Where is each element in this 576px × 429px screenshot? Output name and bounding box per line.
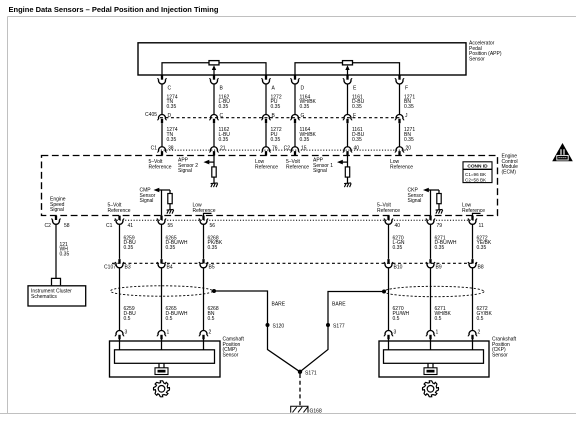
svg-text:C1: C1 — [106, 223, 113, 229]
CMP inner element — [115, 350, 215, 364]
APP pin E terminal — [343, 75, 352, 84]
svg-text:LowReference: LowReference — [462, 203, 485, 214]
potentiometer 2 wiper — [347, 70, 349, 75]
svg-text:LowReference: LowReference — [193, 203, 216, 214]
svg-text:15: 15 — [301, 146, 307, 152]
wire col5 lower — [347, 123, 349, 147]
svg-text:5–VoltReference: 5–VoltReference — [149, 159, 172, 170]
svg-text:3: 3 — [125, 330, 128, 336]
svg-text:C107: C107 — [104, 265, 116, 271]
CKP pullup riser — [438, 190, 440, 194]
svg-text:20: 20 — [406, 146, 412, 152]
svg-text:CONN ID: CONN ID — [467, 164, 488, 170]
svg-text:D: D — [301, 86, 305, 92]
svg-text:6268PK/BK0.35: 6268PK/BK0.35 — [208, 235, 223, 251]
svg-text:6268BN0.5: 6268BN0.5 — [208, 306, 219, 322]
svg-text:40: 40 — [354, 146, 360, 152]
CMP pin 1 — [157, 330, 166, 339]
svg-text:AcceleratorPedalPosition (APP): AcceleratorPedalPosition (APP)Sensor — [469, 41, 502, 63]
svg-text:S177: S177 — [333, 323, 345, 329]
APP pin A terminal — [262, 75, 271, 84]
CMP gear icon — [154, 381, 170, 397]
svg-text:EngineControlModule(ECM): EngineControlModule(ECM) — [502, 154, 519, 176]
ECM pin 40 — [343, 147, 352, 156]
svg-text:1161D-BU0.35: 1161D-BU0.35 — [352, 127, 365, 143]
drain to ground dashed wire — [299, 374, 301, 408]
wire B10 down to CKP — [388, 268, 390, 331]
wire B3 down to CMP — [119, 268, 121, 331]
svg-text:C2: C2 — [284, 146, 291, 152]
APP pin B terminal — [210, 75, 219, 84]
APP2 resistor — [212, 167, 216, 177]
ECM pin 79 — [426, 216, 435, 225]
svg-text:6259D-BU0.35: 6259D-BU0.35 — [124, 235, 137, 251]
APP sensor box — [138, 43, 466, 75]
CKP ground — [436, 209, 443, 213]
wire 79 down — [430, 224, 432, 259]
CMP pin 3 — [115, 330, 124, 339]
APP1 signal arrow — [342, 161, 348, 163]
CKP pullup resistor — [437, 194, 441, 204]
svg-text:1: 1 — [167, 330, 170, 336]
CKP shield junction dot — [382, 290, 386, 294]
svg-text:1: 1 — [436, 330, 439, 336]
CMP resistor ground wire — [169, 204, 171, 210]
potentiometer 2 resistor — [343, 61, 353, 65]
svg-text:C405: C405 — [145, 112, 157, 118]
svg-text:6270PU/WH0.5: 6270PU/WH0.5 — [393, 306, 410, 322]
svg-text:1164WH/BK0.35: 1164WH/BK0.35 — [300, 127, 317, 143]
ECM connector dotted line bottom — [114, 219, 478, 221]
svg-text:C: C — [168, 86, 172, 92]
svg-text:6271D-BU/WH0.35: 6271D-BU/WH0.35 — [435, 235, 457, 251]
page frame bottom rule — [0, 413, 576, 415]
svg-text:B5: B5 — [209, 265, 215, 271]
svg-text:LowReference: LowReference — [390, 159, 413, 170]
ECM pin C2-58 — [52, 216, 61, 225]
CKP pin 3 — [384, 330, 393, 339]
svg-text:C2: C2 — [45, 223, 52, 229]
APP pin C terminal — [158, 75, 167, 84]
CMP sensor box — [110, 341, 221, 377]
svg-text:2: 2 — [209, 330, 212, 336]
APP1 ground — [344, 183, 351, 187]
svg-text:1272PU0.35: 1272PU0.35 — [271, 127, 282, 143]
CKP inner wires — [389, 339, 473, 350]
potentiometer 2 track wire — [295, 63, 400, 75]
splice S171 — [298, 370, 302, 374]
ECM pin 56 — [199, 216, 208, 225]
wire col3 lower — [265, 123, 267, 147]
C107 pin B4 — [157, 259, 166, 268]
ECM boundary dashed box — [42, 156, 498, 216]
wire B8 down to CKP — [472, 268, 474, 331]
ground G168 — [291, 406, 308, 412]
wire col2 upper — [213, 84, 215, 115]
svg-text:F: F — [405, 86, 408, 92]
CMP pullup riser — [169, 190, 171, 194]
CKP sensor box — [379, 341, 489, 377]
ECM pin C1-38 — [158, 147, 167, 156]
svg-text:6265D-BU/WH0.5: 6265D-BU/WH0.5 — [166, 306, 188, 322]
svg-text:21: 21 — [220, 146, 226, 152]
CKP signal arrow — [428, 189, 439, 191]
CKP signal wire down to pin 79 — [430, 190, 432, 216]
C107 pin B5 — [199, 259, 208, 268]
CKP drain wire — [300, 292, 384, 372]
svg-text:1274TN0.35: 1274TN0.35 — [167, 94, 178, 110]
wire col5 upper — [347, 84, 349, 115]
instrument cluster box — [28, 286, 86, 306]
C405 pin F — [343, 114, 352, 123]
svg-text:2: 2 — [478, 330, 481, 336]
svg-text:G: G — [301, 113, 305, 119]
svg-text:D: D — [168, 113, 172, 119]
CMP pin 2 — [199, 330, 208, 339]
svg-text:Engine Data Sensors – Pedal Po: Engine Data Sensors – Pedal Position and… — [9, 5, 219, 14]
ECM pin 55 — [157, 216, 166, 225]
wire 58 to cluster — [55, 224, 57, 278]
splice S177 — [326, 323, 330, 327]
C405 pin G — [291, 114, 300, 123]
pin B9 — [426, 259, 435, 268]
svg-text:1162L-BU0.35: 1162L-BU0.35 — [219, 127, 231, 143]
svg-text:B: B — [220, 86, 224, 92]
CMP shield ellipse — [111, 286, 213, 296]
APP1 resistor to ground wire — [347, 177, 349, 183]
CONN ID box — [463, 162, 492, 183]
wire B4 down to CMP — [161, 268, 163, 331]
pin11 internal stub — [473, 213, 481, 216]
CKP pin 2 — [468, 330, 477, 339]
svg-text:B4: B4 — [167, 265, 173, 271]
page frame top rule — [8, 16, 576, 18]
svg-text:CrankshaftPosition(CKP)Sensor: CrankshaftPosition(CKP)Sensor — [492, 337, 517, 359]
svg-text:B9: B9 — [436, 265, 442, 271]
wire col6 lower — [399, 123, 401, 147]
APP2 resistor to ground wire — [213, 177, 215, 183]
svg-text:40: 40 — [395, 223, 401, 229]
APP pin D terminal — [291, 75, 300, 84]
svg-text:79: 79 — [437, 223, 443, 229]
svg-text:B: B — [272, 113, 276, 119]
ECM pin C1-41 — [115, 216, 124, 225]
svg-text:6270L-GN0.35: 6270L-GN0.35 — [393, 235, 405, 251]
splice S120 — [266, 323, 270, 327]
connector C107 dashed line — [112, 262, 477, 264]
C405 pin D — [158, 114, 167, 123]
wire col3 upper — [265, 84, 267, 115]
svg-text:5–VoltReference: 5–VoltReference — [377, 203, 400, 214]
pin B8 — [468, 259, 477, 268]
svg-text:APPSensor 2Signal: APPSensor 2Signal — [178, 158, 198, 175]
ECM pin 21 — [210, 147, 219, 156]
svg-text:C1: C1 — [151, 146, 158, 152]
svg-text:3: 3 — [394, 330, 397, 336]
C107 pin B3 — [115, 259, 124, 268]
ECM connector dotted line top — [158, 149, 408, 151]
wire B5 down to CMP — [203, 268, 205, 331]
C405 pin J — [395, 114, 404, 123]
svg-text:6272YE/BK0.35: 6272YE/BK0.35 — [477, 235, 492, 251]
APP pin F terminal — [395, 75, 404, 84]
CKP resistor ground wire — [438, 204, 440, 210]
svg-text:1161D-BU0.35: 1161D-BU0.35 — [352, 94, 365, 110]
svg-text:CKPSensorSignal: CKPSensorSignal — [408, 188, 424, 205]
svg-text:6265D-BU/WH0.35: 6265D-BU/WH0.35 — [166, 235, 188, 251]
off-page connector bracket — [52, 278, 61, 285]
svg-text:1271BN0.35: 1271BN0.35 — [404, 127, 415, 143]
wire col1 upper — [161, 84, 163, 115]
svg-text:121WH0.35: 121WH0.35 — [60, 242, 70, 258]
ECM pin 11 — [468, 216, 477, 225]
svg-text:58: 58 — [64, 223, 70, 229]
svg-text:6259D-BU0.5: 6259D-BU0.5 — [124, 306, 137, 322]
APP2 signal arrow — [208, 161, 214, 163]
svg-text:B8: B8 — [478, 265, 484, 271]
wire col1 lower — [161, 123, 163, 147]
CMP inner connector — [159, 363, 164, 368]
svg-text:56: 56 — [210, 223, 216, 229]
CMP ground — [167, 209, 174, 213]
svg-text:J: J — [405, 113, 408, 119]
svg-text:C: C — [220, 113, 224, 119]
svg-text:1271BN0.35: 1271BN0.35 — [404, 94, 415, 110]
warning triangle icon — [552, 143, 573, 161]
svg-text:B3: B3 — [125, 265, 131, 271]
CMP inner wires — [120, 339, 204, 350]
APP2 wire into resistor — [213, 156, 215, 168]
svg-text:5–VoltReference: 5–VoltReference — [286, 159, 309, 170]
potentiometer 1 track wire — [162, 63, 266, 75]
wire 11 down — [472, 224, 474, 259]
svg-text:B10: B10 — [394, 265, 403, 271]
connector C405 line — [160, 117, 402, 119]
svg-text:E: E — [353, 86, 357, 92]
potentiometer 1 wiper — [213, 70, 215, 75]
ECM pin 20 — [395, 147, 404, 156]
pin56 internal stub — [204, 213, 212, 216]
svg-text:LowReference: LowReference — [255, 159, 278, 170]
svg-text:G168: G168 — [310, 408, 322, 414]
svg-text:S120: S120 — [273, 323, 285, 329]
CMP signal wire down to pin 55 — [161, 190, 163, 216]
svg-text:11: 11 — [479, 223, 484, 229]
svg-text:A: A — [272, 86, 276, 92]
wire B9 down to CKP — [430, 268, 432, 331]
wire col4 lower — [294, 123, 296, 147]
CKP gear icon — [423, 381, 439, 397]
svg-text:CamshaftPosition(CMP)Sensor: CamshaftPosition(CMP)Sensor — [223, 337, 245, 359]
svg-text:76: 76 — [272, 146, 278, 152]
svg-text:38: 38 — [168, 146, 174, 152]
svg-text:BARE: BARE — [272, 301, 286, 307]
CMP shield junction dot — [212, 289, 216, 293]
svg-text:55: 55 — [168, 223, 174, 229]
svg-text:BARE: BARE — [332, 301, 346, 307]
APP1 resistor — [345, 167, 349, 177]
CMP drain wire — [214, 291, 300, 372]
svg-text:6272GY/BK0.5: 6272GY/BK0.5 — [477, 306, 493, 322]
C405 pin B — [262, 114, 271, 123]
wire col4 upper — [294, 84, 296, 115]
CMP pullup resistor — [168, 194, 172, 204]
CKP pin 1 — [426, 330, 435, 339]
svg-text:APPSensor 1Signal: APPSensor 1Signal — [313, 158, 333, 175]
svg-text:1164WH/BK0.35: 1164WH/BK0.35 — [300, 94, 317, 110]
CKP inner connector — [428, 363, 433, 368]
ECM pin 40b — [384, 216, 393, 225]
svg-text:F: F — [353, 113, 356, 119]
C405 pin C — [210, 114, 219, 123]
page frame left rule — [7, 17, 9, 414]
CKP inner element — [384, 350, 484, 364]
svg-text:1272PU0.35: 1272PU0.35 — [271, 94, 282, 110]
CMP signal arrow — [159, 189, 171, 191]
wire col2 lower — [213, 123, 215, 147]
wire 41 down — [119, 224, 121, 259]
ECM pin C2-15 — [291, 147, 300, 156]
CKP shield ellipse — [384, 286, 484, 296]
wire 40 down — [388, 224, 390, 259]
APP1 wire into resistor — [347, 156, 349, 168]
wire col6 upper — [399, 84, 401, 115]
svg-text:C2=58 BK: C2=58 BK — [465, 177, 487, 182]
svg-text:1274TN0.35: 1274TN0.35 — [167, 127, 178, 143]
svg-text:EngineSpeedSignal: EngineSpeedSignal — [50, 197, 66, 214]
svg-text:6271WH/BK0.5: 6271WH/BK0.5 — [435, 306, 452, 322]
potentiometer 1 resistor — [209, 61, 219, 65]
pin B10 — [384, 259, 393, 268]
svg-text:5–VoltReference: 5–VoltReference — [108, 203, 131, 214]
svg-text:1162L-BU0.35: 1162L-BU0.35 — [219, 94, 231, 110]
ECM pin 76 — [262, 147, 271, 156]
svg-text:S171: S171 — [305, 370, 317, 376]
wire 55 down — [161, 224, 163, 259]
svg-text:CMPSensorSignal: CMPSensorSignal — [140, 188, 156, 205]
wire 56 down — [203, 224, 205, 259]
svg-text:41: 41 — [128, 223, 134, 229]
APP2 ground — [211, 183, 218, 187]
